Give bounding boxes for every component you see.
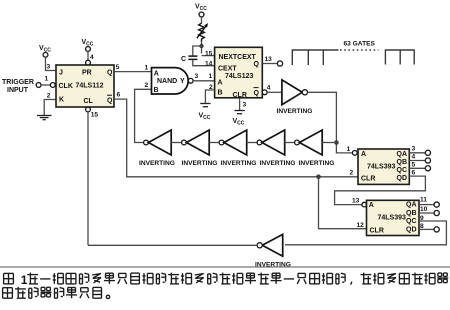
waveform gate pulses	[292, 50, 414, 65]
svg-text:A: A	[154, 71, 159, 78]
svg-text:CLK: CLK	[59, 83, 73, 90]
wire CLR rail down to U11 CLR	[319, 177, 367, 229]
wire U9 input to node A	[322, 142, 336, 144]
A2 clock bubble	[362, 202, 367, 207]
ground	[37, 116, 52, 120]
CL inversion bubble pin 15	[86, 107, 91, 112]
svg-text:CEXT: CEXT	[218, 66, 237, 73]
resistor arrow head	[204, 23, 208, 28]
svg-text:CLR: CLR	[361, 176, 375, 183]
junction node	[199, 44, 203, 48]
wire U5 to U6	[171, 142, 181, 144]
caption text	[3, 273, 449, 299]
svg-text:74LS112: 74LS112	[76, 83, 104, 90]
svg-text:11: 11	[420, 197, 427, 204]
wire U6 to U7	[209, 142, 219, 144]
Qbar pin 4 bubble	[262, 90, 267, 95]
wire QC pin 5 to terminal	[409, 167, 425, 169]
wire U4 output down to node A	[308, 92, 353, 153]
svg-text:QB: QB	[397, 159, 408, 166]
divider line	[0, 266, 450, 268]
wire U7 to U8	[247, 142, 257, 144]
node VCC (J input supply)	[39, 45, 51, 57]
counter U11 74LS393 body	[367, 200, 420, 235]
svg-text:3: 3	[195, 73, 199, 80]
svg-text:9: 9	[420, 215, 424, 222]
svg-text:4: 4	[412, 154, 416, 161]
svg-text:PR: PR	[82, 70, 92, 77]
svg-text:6: 6	[412, 170, 416, 177]
inverter U12 (reset feedback)	[262, 234, 283, 256]
svg-text:QC: QC	[397, 167, 408, 174]
wire QB pin 4 to terminal	[409, 160, 425, 162]
wire CLR pin 3 to VCC tie	[239, 98, 241, 111]
resistor R1 (variable)	[197, 23, 206, 41]
wire Qbar pin 6 to CLR rail	[114, 99, 358, 177]
svg-text:3: 3	[47, 64, 51, 71]
svg-text:QA: QA	[406, 201, 417, 208]
svg-text:Y: Y	[180, 78, 185, 85]
svg-text:Q: Q	[107, 98, 113, 105]
svg-text:QB: QB	[406, 210, 417, 217]
counter U10 74LS393 body	[358, 149, 409, 184]
svg-text:13: 13	[265, 56, 273, 63]
svg-text:5: 5	[412, 162, 416, 169]
wire QA pin 3 to terminal	[409, 152, 425, 154]
NAND gate U2	[152, 68, 189, 94]
wire VCC to J pin 3	[46, 57, 57, 70]
NAND output bubble	[188, 78, 193, 83]
svg-text:QC: QC	[406, 218, 417, 225]
inverter U5	[144, 140, 149, 145]
svg-text:TRIGGER: TRIGGER	[2, 79, 34, 86]
svg-text:INVERTING: INVERTING	[260, 160, 296, 167]
svg-text:INVERTING: INVERTING	[221, 160, 257, 167]
wire QB pin 10 to terminal	[419, 212, 434, 214]
CLK inversion bubble	[50, 83, 55, 88]
svg-text:INVERTING: INVERTING	[182, 160, 218, 167]
svg-text:CL: CL	[84, 98, 94, 105]
node VCC (timing supply)	[195, 4, 207, 17]
wire U12 output to CL pin 15 rail	[88, 244, 257, 246]
VCC tie symbol (CLR)	[234, 111, 244, 114]
svg-text:C: C	[181, 56, 186, 63]
wire capacitor bottom to pin 14 CEXT	[193, 60, 215, 66]
svg-text:2: 2	[350, 170, 354, 177]
A1 clock bubble	[352, 151, 357, 156]
svg-text:INVERTING: INVERTING	[277, 108, 313, 115]
svg-text:4: 4	[90, 54, 94, 61]
svg-text:Q: Q	[254, 90, 260, 97]
svg-text:QD: QD	[397, 175, 408, 182]
wire QA pin 11 to terminal	[419, 204, 434, 206]
svg-text:15: 15	[205, 50, 213, 57]
svg-text:INPUT: INPUT	[7, 87, 29, 94]
svg-text:74LS393: 74LS393	[367, 164, 396, 171]
svg-text:1: 1	[45, 76, 49, 83]
svg-text:NEXTCEXT: NEXTCEXT	[219, 54, 257, 61]
inverter U9	[295, 140, 300, 145]
wire VCC to resistor	[201, 17, 203, 24]
svg-text:10: 10	[420, 206, 428, 213]
svg-text:INVERTING: INVERTING	[139, 160, 175, 167]
inverter U4 (oscillator enable)	[282, 80, 302, 105]
VCC tie symbol (B input)	[200, 104, 210, 107]
PR inversion bubble	[86, 60, 91, 65]
wire NAND B pin 2 feedback from inverter chain	[135, 89, 152, 142]
svg-text:CLR: CLR	[370, 227, 384, 234]
svg-text:Q: Q	[254, 61, 260, 68]
svg-text:1: 1	[347, 146, 351, 153]
flip-flop U1 74LS112 body	[56, 65, 114, 107]
gate output terminal	[277, 61, 282, 66]
svg-text:INVERTING: INVERTING	[299, 160, 335, 167]
inverter U6	[182, 140, 187, 145]
svg-text:74LS123: 74LS123	[225, 73, 254, 80]
inverter U8	[257, 140, 262, 145]
wire QD pin 8 to terminal	[419, 228, 434, 230]
svg-text:K: K	[59, 97, 64, 104]
wire junction to pin 15 REXT/CEXT	[202, 55, 215, 57]
wire Q pin 5 to NAND A pin 1	[114, 71, 152, 73]
wire CL down to bottom rail	[87, 112, 89, 245]
svg-text:VCC: VCC	[195, 4, 207, 13]
inverter U7	[219, 140, 224, 145]
svg-text:Q: Q	[107, 70, 113, 77]
svg-text:14: 14	[205, 60, 213, 67]
wire Q pin 13 to gate output terminal	[262, 63, 277, 65]
svg-text:12: 12	[357, 222, 365, 229]
svg-text:VCC: VCC	[233, 118, 245, 127]
svg-text:13: 13	[352, 197, 360, 204]
svg-text:74LS393: 74LS393	[378, 214, 407, 221]
svg-text:2: 2	[47, 93, 51, 100]
trigger input terminal	[36, 83, 41, 88]
node A junction	[334, 140, 339, 145]
svg-text:8: 8	[420, 223, 424, 230]
svg-text:15: 15	[91, 112, 99, 119]
wire U8 to U9	[285, 142, 295, 144]
svg-text:3: 3	[243, 102, 247, 109]
svg-text:3: 3	[412, 146, 416, 153]
wire Qbar to inverter U4	[267, 91, 282, 93]
wire B pin 2 to VCC tie	[205, 90, 214, 104]
svg-text:B: B	[154, 87, 159, 94]
svg-text:A: A	[369, 202, 374, 209]
node VCC (PR supply)	[82, 39, 94, 51]
svg-text:J: J	[59, 70, 63, 77]
svg-text:2: 2	[145, 82, 149, 89]
svg-text:NAND: NAND	[157, 78, 177, 85]
svg-text:A: A	[361, 151, 366, 158]
wire resistor to junction	[201, 42, 203, 54]
svg-text:QD: QD	[406, 226, 417, 233]
svg-text:1: 1	[209, 73, 213, 80]
wire QC pin 9 to bottom inverter	[285, 221, 446, 245]
svg-text:1: 1	[145, 65, 149, 72]
svg-text:A: A	[218, 80, 223, 87]
U1 labels	[59, 70, 114, 106]
svg-text:5: 5	[116, 64, 120, 71]
svg-text:QA: QA	[397, 151, 408, 158]
wire VCC to PR pin 4	[87, 51, 89, 60]
wire QD pin 6 cascade to U11 A pin 13	[335, 176, 426, 205]
wire junction to capacitor top	[193, 46, 202, 55]
svg-text:6: 6	[117, 92, 121, 99]
wire NAND Y pin 3 to U3 A pin 1	[193, 80, 215, 82]
svg-text:B: B	[218, 89, 223, 96]
CLR rail junction node	[316, 175, 321, 180]
wire K pin 2 to ground	[44, 100, 56, 116]
monostable U3 74LS123 body	[215, 47, 263, 98]
svg-text:1: 1	[21, 273, 28, 287]
svg-text:VCC: VCC	[199, 113, 211, 122]
wire trigger to CLK	[41, 84, 50, 86]
svg-text:63 GATES: 63 GATES	[344, 41, 376, 48]
svg-text:4: 4	[267, 85, 271, 92]
